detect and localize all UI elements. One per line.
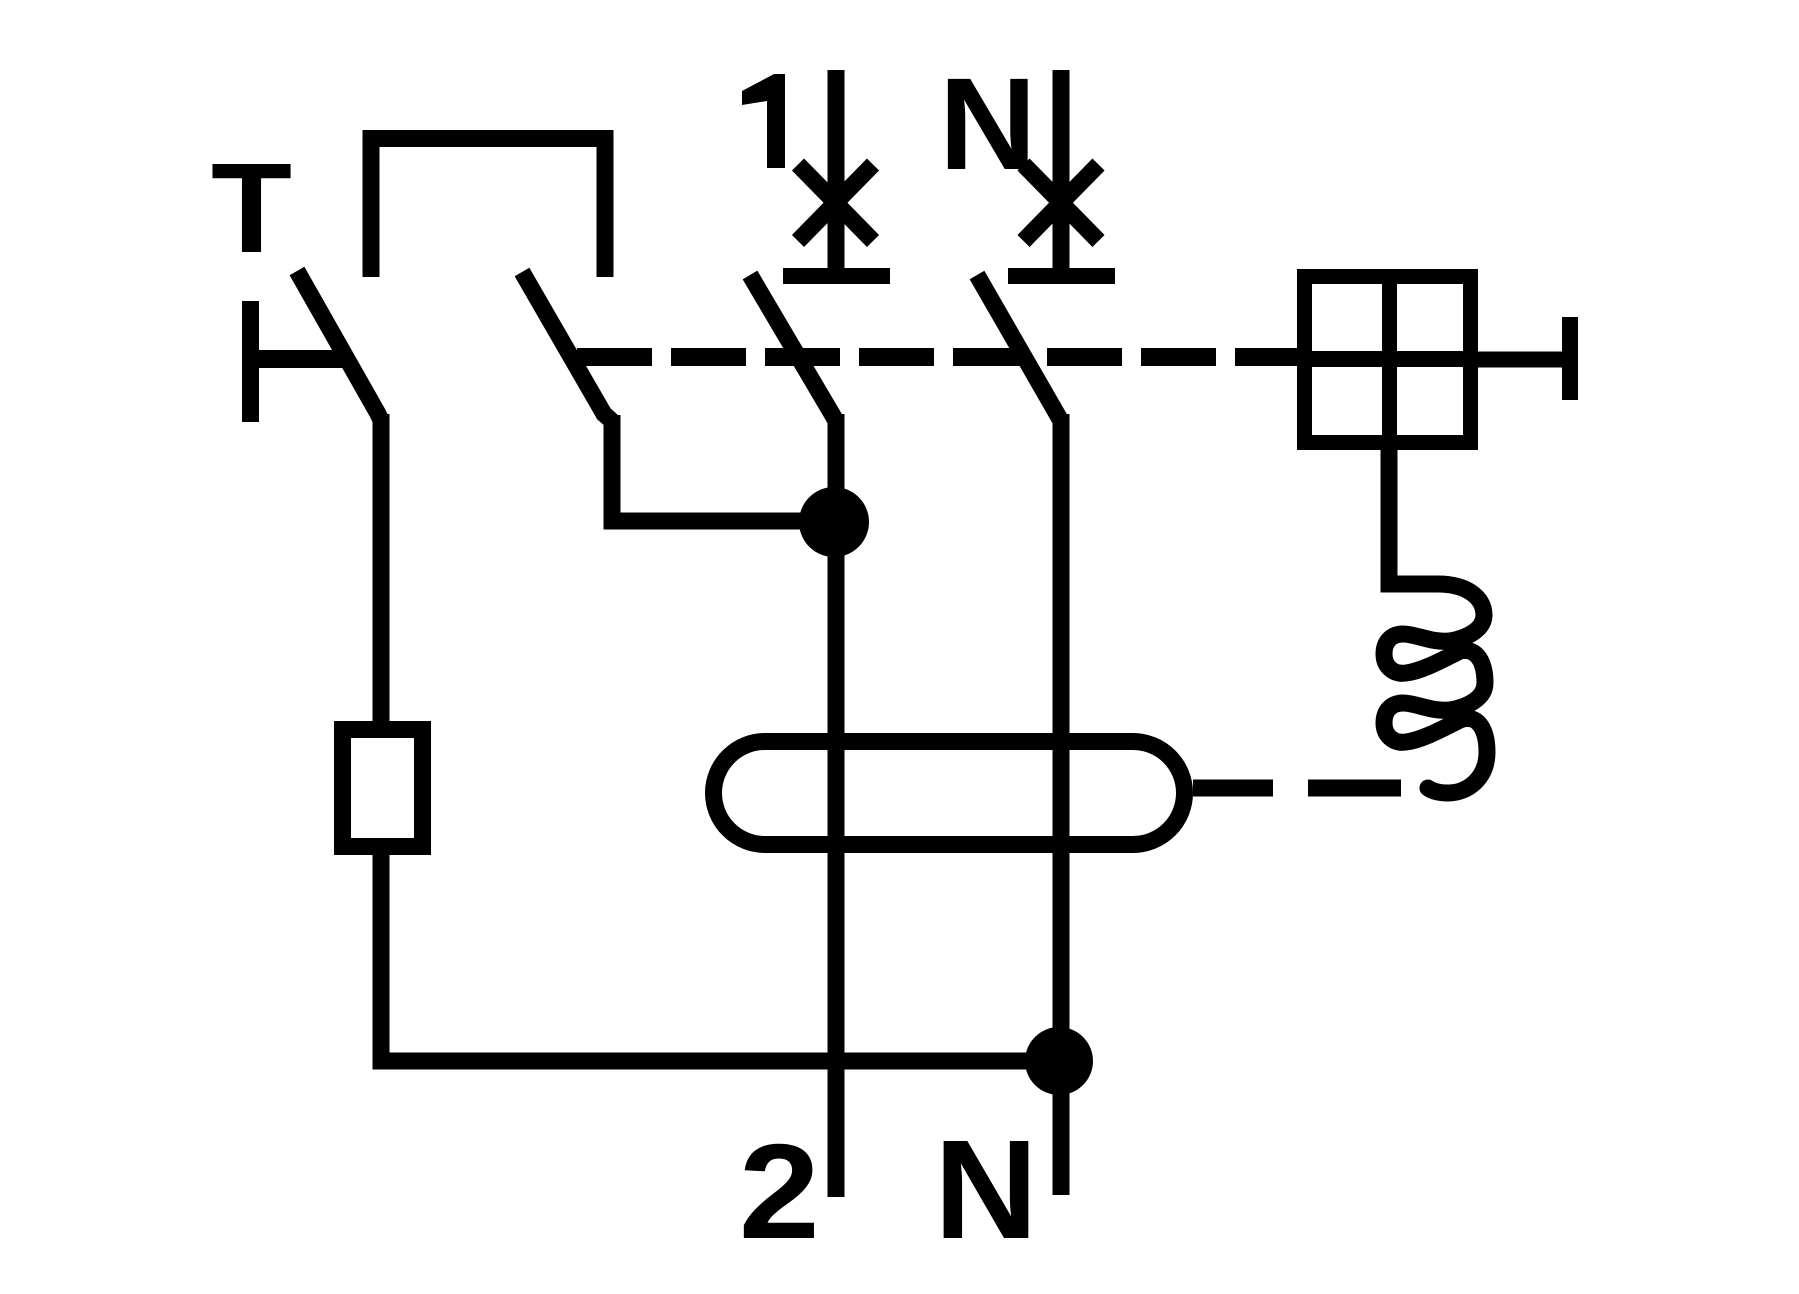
right terminal tick — [1562, 317, 1578, 400]
svg-text:T: T — [211, 137, 292, 280]
pole N fixed contact bar — [1008, 268, 1115, 284]
pole 1 label — [742, 74, 785, 168]
junction A dot — [799, 487, 869, 557]
linked switch blade (test pole) — [522, 272, 612, 421]
wire relay to coil — [1381, 450, 1398, 593]
CT secondary stub — [1193, 780, 1273, 797]
pole 1 input conductor — [828, 70, 845, 268]
wire test switch to resistor — [373, 414, 390, 740]
trip relay (square with cross) — [1305, 277, 1471, 443]
pole 1 switch blade — [750, 275, 836, 421]
pole 1 fixed contact bar — [783, 268, 890, 284]
current transformer toroid — [714, 742, 1185, 845]
trip coil winding — [1384, 584, 1487, 793]
pole N breaker cross X — [1024, 165, 1099, 242]
pole 1 breaker cross X — [798, 165, 873, 242]
test button bracket — [371, 139, 605, 278]
svg-text:N: N — [934, 1110, 1038, 1268]
pole N switch blade — [977, 275, 1061, 421]
pole 1 conductor through CT — [828, 414, 845, 1197]
test switch blade — [297, 271, 381, 420]
wire linked blade to junction A — [612, 415, 810, 521]
resistor R test — [343, 730, 423, 847]
junction B dot (neutral) — [1025, 1027, 1093, 1095]
trip relay cross horizontal — [1297, 351, 1478, 367]
svg-text:2: 2 — [739, 1116, 820, 1267]
terminal tick T — [242, 301, 259, 422]
pole N conductor through CT — [1053, 414, 1070, 1195]
wire resistor to neutral junction — [381, 842, 1058, 1061]
wire T terminal to test switch — [242, 350, 348, 368]
trip relay cross vertical — [1382, 269, 1397, 450]
pole N input conductor — [1053, 70, 1070, 268]
mechanical linkage (dashed) — [577, 348, 1297, 366]
wire relay to right terminal — [1478, 352, 1562, 368]
CT secondary dash — [1308, 780, 1401, 797]
